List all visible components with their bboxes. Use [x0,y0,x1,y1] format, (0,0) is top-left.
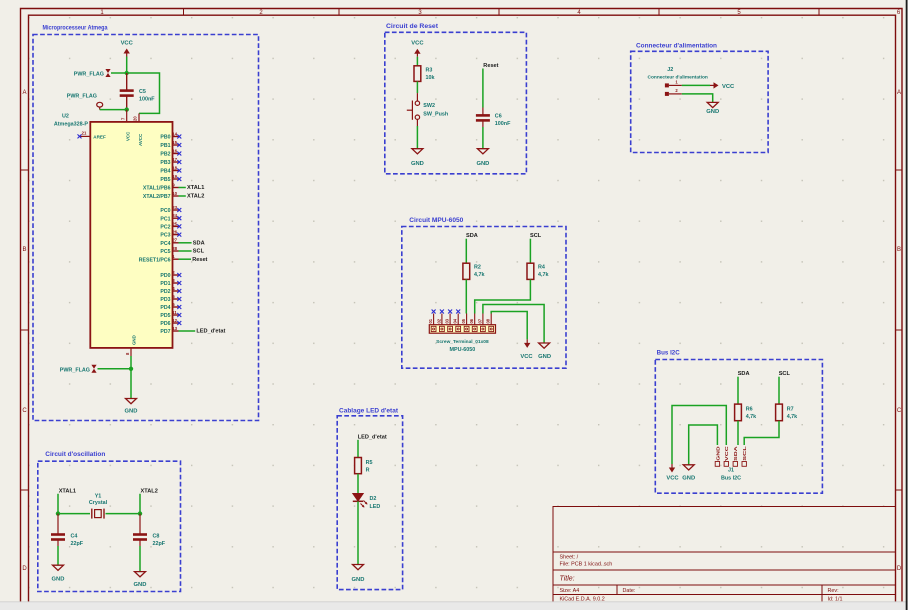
svg-text:10k: 10k [426,75,435,81]
svg-text:PC2: PC2 [160,225,170,231]
svg-text:VCC: VCC [411,41,424,47]
connector J1 pin SDA [733,446,738,466]
svg-text:100nF: 100nF [139,97,155,103]
resistor R2 4,7k [463,263,485,279]
svg-text:U2: U2 [62,114,69,120]
resistor R4 4,7k [527,263,549,279]
wire PWR_FLAG2 to node2 [100,109,127,111]
svg-text:GND: GND [715,446,720,461]
svg-text:Connecteur d'alimentation: Connecteur d'alimentation [648,75,708,81]
svg-text:J2: J2 [667,67,673,73]
svg-text:SDA: SDA [733,446,738,461]
svg-text:AVCC: AVCC [138,133,143,146]
svg-text:VCC: VCC [520,354,533,360]
wire VCC to node [126,57,128,74]
crystal Y1 [89,494,108,519]
svg-text:04: 04 [453,318,458,323]
section box Circuit MPU-6050 [402,227,566,369]
svg-text:RESET1/PC6: RESET1/PC6 [139,257,171,263]
section box Microprocesseur Atmega [33,35,259,421]
svg-text:PWR_FLAG: PWR_FLAG [60,367,90,373]
wire D2 to ground [357,501,359,564]
capacitor C5 100nF [120,73,156,110]
svg-text:VCC: VCC [121,41,134,47]
wire SDA to R2 [465,239,467,264]
bottom status bar [0,602,908,610]
wire net LED_d&#39;etat [179,330,196,332]
svg-text:15: 15 [172,140,177,145]
svg-text:B: B [22,247,26,253]
svg-text:XTAL2/PB7: XTAL2/PB7 [143,194,171,200]
svg-text:R6: R6 [746,407,753,413]
svg-text:Y1: Y1 [95,494,102,500]
svg-text:A: A [22,90,26,96]
svg-text:08: 08 [486,318,491,323]
wire label to R5 [357,440,359,458]
svg-text:SW_Push: SW_Push [423,112,448,118]
pin 10 XTAL2/PB7 [143,191,179,200]
section box Circuit de Reset [385,32,527,174]
wire R4 to pin6 [475,279,531,313]
connector pin 8 (screw terminal) [486,314,494,332]
svg-text:PB4: PB4 [160,169,170,175]
svg-text:07: 07 [477,318,482,323]
svg-text:Circuit MPU-6050: Circuit MPU-6050 [409,218,464,224]
svg-text:D2: D2 [370,496,377,502]
wire SCL to R4 [529,239,531,264]
capacitor C6 100nF [476,108,511,128]
pin 13 PD7 [160,326,178,335]
svg-text:24: 24 [172,213,177,218]
frame row ticks [21,170,903,490]
ground GND (C8) [134,572,147,588]
svg-text:12: 12 [172,318,177,323]
svg-text:SDA: SDA [738,371,750,377]
frame column numbers [100,10,901,16]
svg-text:14: 14 [172,131,177,136]
section box Circuit oscillation [38,461,181,591]
svg-text:4,7k: 4,7k [787,414,798,420]
connector J1 pin GND [715,446,720,466]
svg-text:D: D [22,566,27,572]
pin 18 PB4 [160,165,181,174]
svg-text:4,7k: 4,7k [746,414,757,420]
right window edge [906,0,908,610]
pin 4 PD2 [160,286,181,295]
wire pin1 to VCC [682,84,710,86]
resistor R6 4,7k [735,404,757,421]
connector J1 pin SCL [742,446,747,467]
svg-text:06: 06 [469,318,474,323]
svg-text:PD7: PD7 [160,329,170,335]
svg-text:XTAL1: XTAL1 [187,185,204,191]
svg-text:PB3: PB3 [160,160,170,166]
svg-text:PC0: PC0 [160,208,170,214]
svg-text:25: 25 [172,221,177,226]
svg-text:GND: GND [134,582,147,588]
title block [553,507,896,602]
wire GND pin to ground [130,356,132,399]
power PWR_FLAG3 [60,365,97,374]
svg-text:Bus I2C: Bus I2C [721,476,741,482]
svg-text:Date:: Date: [623,588,636,594]
wire net Reset [179,258,192,260]
pin 9 XTAL1/PB6 [143,182,179,191]
wire R3 to SW2 [416,81,418,93]
svg-text:VCC: VCC [724,446,729,461]
connector pin 5 (screw terminal) [461,314,469,332]
svg-text:XTAL1: XTAL1 [59,488,76,494]
svg-text:03: 03 [445,318,450,323]
svg-text:Circuit d'oscillation: Circuit d'oscillation [45,452,105,458]
svg-text:VCC: VCC [126,131,131,141]
resistor R5 R [355,458,373,474]
power VCC (J2) [710,82,735,90]
wire net SDA [179,242,192,244]
title block text [560,555,843,603]
wire SDA to R6 [737,377,739,404]
junction osc left [56,511,60,515]
svg-text:28: 28 [172,246,177,251]
connector J1 pin VCC [724,446,729,466]
svg-text:J1: J1 [728,468,734,474]
svg-text:C4: C4 [71,534,78,540]
pin 3 PD1 [160,278,181,287]
svg-text:19: 19 [172,174,177,179]
pin 7 VCC (top) [121,110,131,141]
svg-text:Atmega328-P: Atmega328-P [54,122,89,128]
svg-text:Size: A4: Size: A4 [560,588,580,594]
svg-text:SDA: SDA [466,233,478,239]
wire R6 to pin SDA [737,421,739,445]
svg-text:VCC: VCC [666,476,679,482]
op-amp/IC U2 ATmega328-P body [90,122,172,348]
junction osc right [138,511,142,515]
connector pin 1 (screw terminal) [428,310,436,332]
svg-text:Crystal: Crystal [89,500,108,506]
diode D2 LED [353,494,381,511]
wire R2 to pin5 [465,279,467,313]
junction GND node [129,367,133,371]
capacitor C4 22pF [51,514,84,547]
power VCC (bus) down [666,464,679,482]
svg-text:XTAL2: XTAL2 [187,194,204,200]
svg-text:PB0: PB0 [160,135,170,141]
svg-text:SCL: SCL [193,249,205,255]
ground GND (C6) [476,149,489,167]
svg-text:27: 27 [172,238,177,243]
connector J2 pin 1 [665,80,682,88]
svg-text:GND: GND [476,161,489,167]
svg-text:Rev:: Rev: [828,588,839,594]
ground GND (U2) [125,399,138,415]
svg-text:LED_d'etat: LED_d'etat [196,329,225,335]
svg-text:D: D [897,566,902,572]
pin 21 AREF (left, NC) [78,130,106,139]
connector pin 6 (screw terminal) [469,314,477,332]
connector pin 2 (screw terminal) [436,310,444,332]
wire net XTAL2 [179,195,186,197]
connector J3 Screw_Terminal_01x08 body [429,325,495,334]
ground GND (led) [352,565,365,584]
connector pin 4 (screw terminal) [453,310,461,332]
svg-text:PD4: PD4 [160,305,170,311]
pin 1 RESET1/PC6 [139,254,179,263]
section box Bus I2C [655,360,822,494]
svg-text:C: C [897,408,902,414]
ground GND (reset sw) [411,149,424,167]
pin 8 GND (bottom) [125,335,137,356]
connector pin 3 (screw terminal) [445,310,453,332]
svg-text:PB5: PB5 [160,177,170,183]
connector J2 pin 2 [665,88,682,96]
svg-text:26: 26 [172,230,177,235]
svg-text:18: 18 [172,165,177,170]
svg-text:20: 20 [133,116,138,121]
svg-text:SDA: SDA [193,240,205,246]
power VCC [121,41,134,57]
wire net XTAL1 [179,187,186,189]
pin 11 PD5 [160,310,181,319]
pin 26 PC3 [160,230,181,239]
svg-text:Reset: Reset [192,257,207,263]
wire PWR_FLAG3 to GND node [98,368,132,370]
svg-text:13: 13 [172,326,177,331]
svg-text:02: 02 [436,318,441,323]
pin 28 PC5 [160,246,178,255]
pin 20 AVCC (top) [133,113,143,146]
svg-text:01: 01 [428,318,433,323]
pin 17 PB3 [160,157,181,166]
section box Cablage LED etat [337,416,402,590]
svg-text:16: 16 [172,148,177,153]
section box Connecteur alimentation [631,51,768,152]
svg-text:21: 21 [82,130,87,135]
wire Reset to C6 [482,69,484,108]
ground GND (mpu) [538,343,551,360]
resistor R7 4,7k [776,404,798,421]
resistor R3 10k [414,66,435,82]
svg-text:GND: GND [125,409,138,415]
svg-text:PB2: PB2 [160,152,170,158]
wire pin2 to ground [682,94,713,103]
frame row letters [22,90,902,572]
svg-text:100nF: 100nF [495,121,511,127]
pin 12 PD6 [160,318,181,327]
pin 5 PD3 [160,294,181,303]
svg-text:PWR_FLAG: PWR_FLAG [67,94,97,100]
wire pin7 to GND [483,305,544,344]
pin 27 PC4 [160,238,178,247]
svg-text:R7: R7 [787,407,794,413]
wire XTAL1 down [58,494,90,514]
svg-text:PWR_FLAG: PWR_FLAG [74,72,104,78]
junction node2 [125,107,129,111]
pin 15 PB1 [160,140,181,149]
svg-text:4,7k: 4,7k [538,272,549,278]
svg-text:17: 17 [172,157,177,162]
power VCC (reset) [411,41,424,57]
svg-text:R4: R4 [538,265,545,271]
wire pin GND to ground [689,425,718,465]
svg-text:PC1: PC1 [160,216,170,222]
pin 14 PB0 [160,131,181,140]
ground GND (bus) [682,465,695,482]
svg-text:A: A [897,90,901,96]
pin 16 PB2 [160,148,181,157]
svg-text:GND: GND [411,161,424,167]
svg-text:PD6: PD6 [160,321,170,327]
svg-text:SW2: SW2 [423,103,435,109]
svg-text:GND: GND [538,354,551,360]
svg-text:PD2: PD2 [160,289,170,295]
svg-text:PD1: PD1 [160,281,170,287]
svg-text:SCL: SCL [530,233,542,239]
svg-text:11: 11 [172,310,177,315]
svg-text:4,7k: 4,7k [474,272,485,278]
ground GND (C4) [52,565,65,582]
svg-text:MPU-6050: MPU-6050 [450,347,476,353]
svg-text:R2: R2 [474,265,481,271]
wire C4 to ground [57,546,59,565]
switch SW2 SW_Push [407,93,448,126]
svg-text:GND: GND [352,577,365,583]
svg-text:C5: C5 [139,89,146,95]
wire PWR_FLAG1 to node [111,72,127,74]
pin 24 PC1 [160,213,181,222]
svg-text:XTAL1/PB6: XTAL1/PB6 [143,186,171,192]
svg-text:B: B [897,247,901,253]
wire net SCL [179,250,192,252]
wire VCC to R3 [416,57,418,66]
svg-text:R5: R5 [366,460,373,466]
pin 23 PC0 [160,205,181,214]
svg-text:C8: C8 [153,534,160,540]
svg-text:22pF: 22pF [153,541,166,547]
svg-text:PB1: PB1 [160,143,170,149]
power PWR_FLAG1 [74,69,111,78]
svg-text:10: 10 [172,191,177,196]
svg-text:GND: GND [52,577,65,583]
wire pin VCC to power [672,406,726,465]
svg-text:SCL: SCL [779,371,791,377]
junction VCC node [125,71,129,75]
power VCC (mpu) [520,339,533,360]
svg-text:PC5: PC5 [160,249,170,255]
wire SCL to R7 [778,377,780,404]
svg-text:XTAL2: XTAL2 [141,488,158,494]
wire R7 to pin SCL [744,421,779,445]
wire C6 to ground [482,127,484,149]
svg-text:Title:: Title: [560,576,575,583]
pin 2 PD0 [160,270,181,279]
wire node to AVCC pin [127,73,160,113]
wire R5 to D2 [357,474,359,493]
pin 6 PD4 [160,302,181,311]
ground GND (J2) [706,102,719,115]
svg-text:PC3: PC3 [160,233,170,239]
svg-text:File: PCB 1 kicad..sch: File: PCB 1 kicad..sch [560,562,613,568]
svg-text:C6: C6 [495,114,502,120]
svg-text:Connecteur d'alimentation: Connecteur d'alimentation [636,44,717,50]
svg-text:VCC: VCC [722,84,735,90]
pin 25 PC2 [160,221,181,230]
svg-text:Reset: Reset [483,63,498,69]
wire crystal to right [106,494,141,514]
connector pin 7 (screw terminal) [477,314,485,332]
wire pin8 to VCC [491,312,527,340]
capacitor C8 22pF [133,514,166,547]
svg-text:R3: R3 [426,68,433,74]
svg-text:Cablage LED d'etat: Cablage LED d'etat [339,409,398,415]
svg-text:LED: LED [370,504,381,510]
svg-text:C: C [22,408,27,414]
svg-text:AREF: AREF [93,135,106,140]
svg-text:SCL: SCL [742,446,747,461]
pin 19 PB5 [160,174,181,183]
svg-text:GND: GND [682,476,695,482]
svg-text:Bus I2C: Bus I2C [657,351,681,357]
svg-text:22pF: 22pF [71,541,84,547]
wire SW2 to ground [416,126,418,149]
svg-text:PD0: PD0 [160,273,170,279]
svg-text:Sheet: /: Sheet: / [560,555,579,561]
svg-text:R: R [366,467,370,473]
svg-text:Microprocesseur Atmega: Microprocesseur Atmega [43,26,109,32]
wire C8 to ground [139,546,141,572]
svg-text:PD5: PD5 [160,313,170,319]
svg-text:Screw_Terminal_01x08: Screw_Terminal_01x08 [436,339,489,345]
svg-text:LED_d'etat: LED_d'etat [358,434,387,440]
svg-text:05: 05 [461,318,466,323]
svg-text:GND: GND [706,109,719,115]
svg-text:GND: GND [132,335,137,345]
frame column ticks [184,9,820,16]
svg-text:PC4: PC4 [160,241,170,247]
svg-text:23: 23 [172,205,177,210]
svg-text:Circuit de Reset: Circuit de Reset [386,24,438,30]
svg-text:PD3: PD3 [160,297,170,303]
power PWR_FLAG2 [67,94,103,110]
